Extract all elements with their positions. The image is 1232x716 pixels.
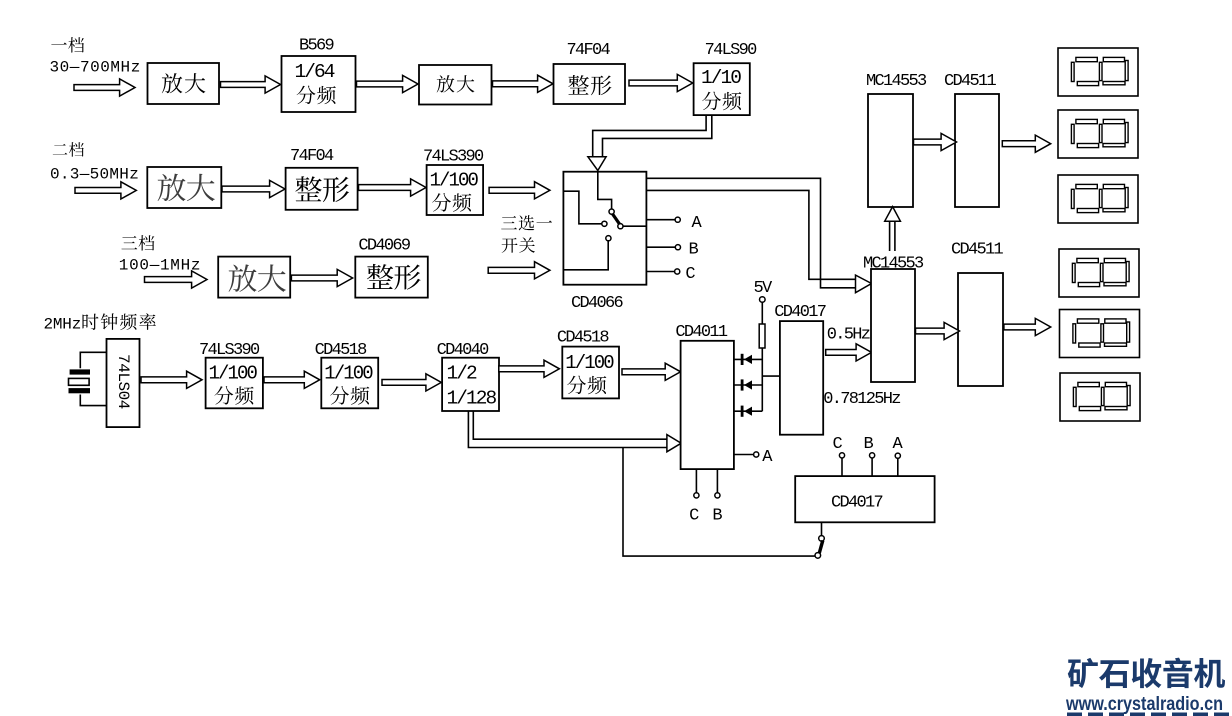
svg-text:CD4066: CD4066 [571,294,624,313]
svg-text:1/100: 1/100 [209,363,258,385]
svg-text:CD4017: CD4017 [774,303,826,322]
svg-text:CD4011: CD4011 [675,323,728,342]
svg-text:5V: 5V [754,279,774,298]
wire inside CD4066 from bottom entry [563,241,608,270]
wire CD4011 bottom terminal C [695,469,697,493]
divider block 74LS390 1/100 [427,165,484,215]
arrow head into CD4011 lower input [667,435,681,452]
display DS4 seven-segment [1059,249,1139,297]
svg-text:0.3—50MHz: 0.3—50MHz [50,166,139,184]
counter ic CD4017 box [780,321,823,435]
divider block 74LS390 1/100 bottom [206,358,263,409]
svg-text:1/100: 1/100 [430,170,479,192]
counter ic MC14553 second box [871,269,915,382]
divider block CD4518 1/100 [321,358,378,409]
divider block B569 1/64 [282,56,356,112]
label 开关 [502,238,518,253]
svg-text:CD4069: CD4069 [358,237,411,256]
arrow head down into CD4066 [588,157,606,171]
diode D3 wire [734,410,762,412]
wire arrow to CD4040 [382,374,441,391]
svg-text:CD4518: CD4518 [557,329,610,348]
svg-text:1/64: 1/64 [295,61,335,83]
wire inside CD4066 from left entry [563,191,601,224]
watermark bottom dashed strip [1067,713,1232,716]
decoder ic CD4511 second box [958,273,1003,386]
diode D3 [741,406,744,417]
svg-text:CD4511: CD4511 [951,241,1004,260]
svg-text:100—1MHz: 100—1MHz [119,257,201,275]
shaper block 整形 row2 [286,168,358,210]
node 三档 range label [121,236,137,249]
nand gate ic CD4011 box [681,341,734,469]
display DS6 seven-segment [1060,373,1140,421]
switch throw contact left [602,221,607,226]
crystal X1 body [69,378,90,385]
wire arrow MC14553 to CD4511 first [914,133,957,150]
shaper block 整形 74F04 [554,64,626,104]
arrow head into second MC14553 [856,275,872,293]
wire 5V to resistor [761,302,763,324]
wire arrow 74LS04 to 74LS390 [141,371,202,388]
wire CD4017 bottom stub [821,522,823,536]
terminal A circle and stub [895,453,900,458]
resistor R1 pullup [759,324,765,348]
svg-text:1/10: 1/10 [701,67,741,89]
svg-text:2MHz: 2MHz [44,316,82,334]
wire arrow B569 to amp2 [357,75,419,92]
wire from switch to CD4066 right edge [623,225,647,227]
wire branch down to range switch [623,448,815,557]
shaper block 整形 CD4069 [355,257,428,298]
crystal X1 bottom plate [69,388,91,393]
diode D2 wire [734,384,762,386]
wire arrow 74F04 to 74LS90 [629,74,693,91]
amplifier block 放大 row2 [147,167,221,208]
wire arrow CD4040 to CD4518 second [499,360,560,377]
wire arrow 74LS390 to CD4066 [489,182,550,199]
wire arrow CD4511 to displays second [1004,318,1051,335]
svg-text:74F04: 74F04 [567,41,611,60]
watermark logo 矿石收音机 [1068,658,1098,688]
decoder ic CD4511 first box [955,94,999,207]
svg-text:B: B [712,507,722,526]
switch lever [612,214,619,225]
display DS3 seven-segment [1058,175,1138,223]
wire arrow amp1 to B569 [221,76,281,93]
divider block 74LS90 1/10 [694,63,750,115]
counter ic MC14553 first box [868,94,913,207]
svg-text:74LS04: 74LS04 [114,354,132,409]
wire CD4066 to MC14553 hollow elbow [646,178,855,287]
svg-text:C: C [833,435,843,454]
wire arrow amp to 74F04 row2 [222,180,285,197]
node 二档 range label [53,144,67,154]
diode D1 [741,354,744,365]
range switch bottom contact [815,553,821,559]
svg-text:1/100: 1/100 [324,363,373,385]
range switch top contact [819,536,825,542]
svg-text:30—700MHz: 30—700MHz [50,59,141,77]
range switch lever [819,541,823,554]
svg-text:74LS390: 74LS390 [423,148,484,167]
switch throw contact bottom [606,236,611,241]
wire CD4040 down to CD4011 hollow elbow [468,411,667,448]
svg-text:0.5Hz: 0.5Hz [827,326,870,345]
wire arrow CD4518 to CD4011 [622,363,681,380]
svg-text:B: B [864,435,874,454]
svg-text:MC14553: MC14553 [866,72,927,91]
node 一档 range label [51,43,66,45]
wire inside CD4066 from top entry [598,172,612,209]
wire arrow to CD4518 [264,371,320,388]
svg-text:www.crystalradio.cn: www.crystalradio.cn [1065,693,1223,715]
amplifier block 放大 row1 [148,63,220,104]
svg-text:1/2: 1/2 [447,363,478,385]
amplifier block 放大 row1 second [419,65,492,105]
terminal C circle and stub [839,453,844,458]
svg-text:74F04: 74F04 [290,147,334,166]
wire CD4011 bottom terminal B [716,469,718,493]
wire CD4011 right terminal A [734,454,754,456]
wire arrow CD4511 to displays first [1002,135,1050,152]
svg-text:CD4511: CD4511 [944,72,997,91]
wire arrow into amp1 [74,79,135,96]
svg-text:B569: B569 [299,37,335,56]
wire arrow amp2 to 74F04 [493,75,554,92]
wire arrow CD4017 to MC14553 [826,344,872,361]
wire arrow up into MC14553 first [889,221,891,251]
wire oscillator top feedback [80,352,106,368]
wire arrow 74F04 to 74LS390 row2 [359,179,427,196]
amplifier block 放大 row3 [218,257,290,298]
svg-text:0.78125Hz: 0.78125Hz [823,390,900,409]
switch throw contact right [618,224,623,229]
wire diode bus to CD4017 [762,375,780,377]
analog switch CD4066 box [563,172,646,285]
svg-text:C: C [685,265,695,284]
display DS2 seven-segment [1058,110,1138,158]
wire arrow CD4069 to CD4066 [488,262,550,279]
diode D2 [741,379,744,390]
wire 74LS90 down to CD4066 hollow elbow [593,115,706,157]
wire output A with terminal [646,219,675,221]
divider block CD4040 [442,358,499,411]
label 三选一 [501,216,517,229]
wire arrow amp to CD4069 [291,269,352,286]
diode D1 wire [734,358,762,360]
crystal X1 top plate [70,369,90,374]
switch pole contact [609,209,614,214]
svg-text:CD4017: CD4017 [831,494,883,513]
wire arrow into amp row3 [145,271,208,288]
display DS5 seven-segment [1060,310,1140,358]
svg-text:1/128: 1/128 [447,388,497,410]
wire resistor to diode bus [761,348,763,411]
terminal B circle and stub [870,453,875,458]
svg-text:74LS90: 74LS90 [705,41,758,60]
svg-text:1/100: 1/100 [565,352,614,374]
oscillator ic 74LS04 box [107,339,140,427]
display DS1 seven-segment [1058,48,1138,96]
wire output C with terminal [646,271,674,273]
divider block CD4518 1/100 second [562,347,619,399]
wire arrow into amp row2 [75,182,136,199]
wire oscillator bottom feedback [80,395,106,406]
svg-text:B: B [689,241,699,260]
counter ic CD4017 second box [795,476,934,522]
svg-text:C: C [689,507,699,526]
power 5V terminal [760,297,766,303]
wire arrow MC14553 to CD4511 second [916,322,960,339]
wire output B with terminal [646,246,675,248]
